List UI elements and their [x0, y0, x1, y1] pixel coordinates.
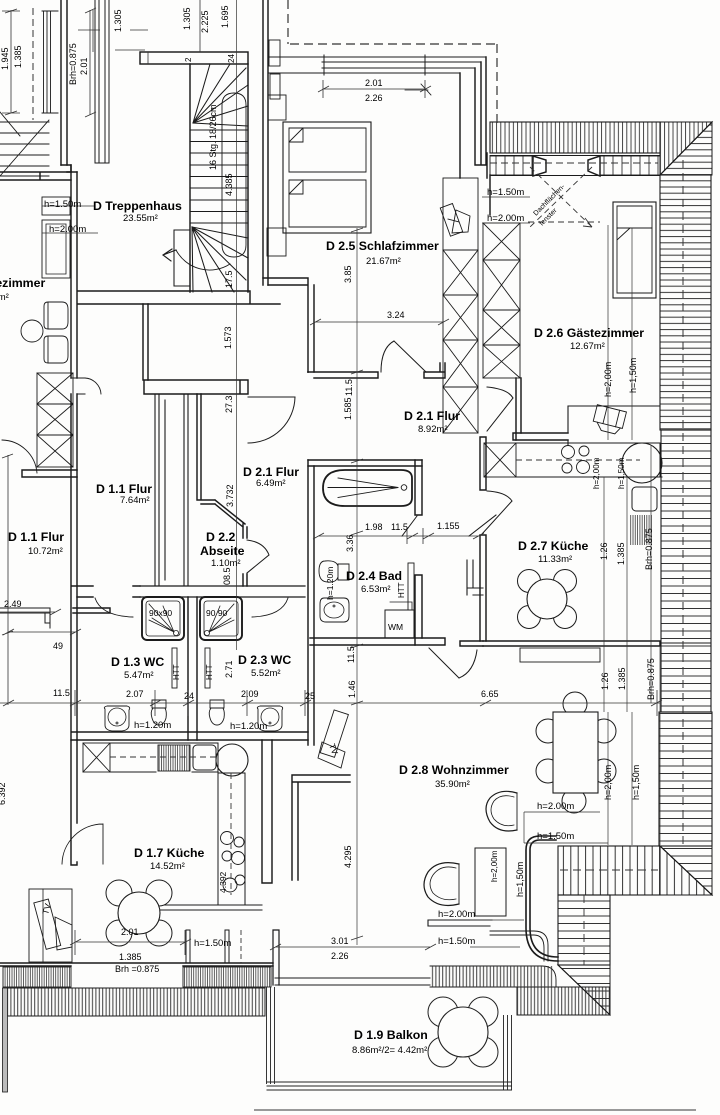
balcony door dim [270, 944, 436, 950]
stair cage walls [190, 64, 248, 292]
abseite D2.2 walls [197, 394, 247, 538]
radiator comb [630, 515, 652, 545]
balcony parapet hatch band bottom-left [3, 988, 265, 1016]
kitchen D2.7 left wall segments [480, 437, 486, 641]
window band far top-left [42, 11, 58, 113]
balcony door band (window) [275, 978, 430, 985]
roof valley line top-right [660, 122, 712, 175]
stair arrow [163, 249, 176, 261]
svg-text:Gästezimmer: Gästezimmer [0, 276, 45, 290]
svg-text:2.26: 2.26 [331, 951, 349, 961]
svg-text:HTT: HTT [172, 664, 181, 680]
beam below kitchen [520, 648, 600, 662]
svg-text:h=1,50m: h=1,50m [631, 765, 641, 800]
svg-text:4.295: 4.295 [343, 845, 353, 868]
svg-text:2.225: 2.225 [200, 10, 210, 33]
WC D1.3 sink [104, 706, 129, 731]
svg-text:90 90: 90 90 [206, 608, 228, 618]
svg-text:h=1.50m: h=1.50m [44, 199, 81, 210]
svg-text:h=2.00m: h=2.00m [438, 909, 475, 920]
roof band corner top-right (rung wedge) [660, 122, 712, 175]
misc ticks top wall [115, 0, 200, 64]
svg-text:h=2,00m: h=2,00m [603, 362, 613, 397]
svg-text:3.24: 3.24 [387, 310, 405, 320]
schlafzimmer left wall pair [263, 0, 268, 285]
wohnzimmer roof band horizontal part [558, 846, 660, 895]
bath bottom wall [310, 638, 445, 645]
door kueche D1.7 (arc) [62, 824, 103, 864]
window sill tick band below wohnzimmer [430, 966, 556, 987]
svg-text:h=2,00m: h=2,00m [490, 850, 499, 882]
window sill tick band kitchen D1.7 right [183, 967, 271, 987]
dach trapezoid marks [533, 156, 546, 176]
bath toilet [319, 561, 349, 582]
comb rack [158, 745, 190, 771]
svg-text:10.72m²: 10.72m² [28, 546, 63, 557]
balkon top hatch band right [517, 987, 610, 1015]
svg-text:h=1,50m: h=1,50m [617, 457, 626, 489]
wall between showers/WCs [188, 597, 197, 740]
svg-text:5.52m²: 5.52m² [251, 668, 281, 679]
svg-text:6.65: 6.65 [481, 689, 499, 699]
svg-text:3.36: 3.36 [345, 534, 355, 552]
svg-text:1.585: 1.585 [343, 397, 353, 420]
svg-text:17.5: 17.5 [224, 270, 234, 288]
svg-text:24: 24 [227, 54, 236, 63]
balcony table + chairs [428, 997, 498, 1067]
svg-text:1.305: 1.305 [182, 7, 192, 30]
svg-text:WM: WM [388, 622, 403, 632]
svg-text:12.34m²: 12.34m² [0, 292, 9, 303]
left edge dim chain [2, 9, 20, 115]
square sink [193, 745, 216, 770]
kitchen D1.7 bottom wall [155, 905, 262, 910]
svg-text:h=1,50m: h=1,50m [515, 862, 525, 897]
svg-text:D 1.9 Balkon: D 1.9 Balkon [354, 1028, 428, 1042]
stair landing rect [174, 230, 190, 286]
top wall band of treppenhaus [140, 52, 248, 64]
big dim chain y703 [0, 702, 660, 704]
gaestezimmer bottom wall [513, 433, 568, 440]
svg-text:27.3: 27.3 [224, 395, 234, 413]
90x90 shower labels [149, 608, 403, 632]
WC D2.3 toilet [209, 700, 224, 725]
HTT radiators between WCs [172, 648, 177, 688]
svg-text:11.5: 11.5 [344, 379, 354, 396]
curved wall balcony corner (thick) [526, 836, 558, 961]
area labels [28, 213, 605, 1056]
svg-text:08.5: 08.5 [222, 567, 232, 585]
kitchen D2.7 bottom wall [483, 641, 660, 646]
svg-text:1.385: 1.385 [119, 952, 142, 962]
gaestezimmer left wall pair lower [516, 378, 521, 440]
svg-text:4.392: 4.392 [218, 871, 228, 893]
svg-text:8.86m²/2= 4.42m²: 8.86m²/2= 4.42m² [352, 1045, 427, 1056]
svg-text:49: 49 [53, 641, 63, 651]
vertical ref line x236 [236, 0, 238, 650]
door treppenhaus (small arc) [85, 378, 101, 394]
curved h-line inner [490, 931, 548, 961]
schlafzimmer right wall corner (nested L) [460, 57, 486, 178]
kitchen window dim [70, 930, 191, 955]
balcony railing right [504, 1015, 512, 1090]
tick 2.26 dim end [405, 84, 431, 95]
door gaestezimmer (pointed) [487, 387, 513, 431]
bathtub [323, 470, 412, 506]
hob circles vertical [221, 832, 234, 845]
svg-text:1.573: 1.573 [223, 326, 233, 349]
wall above WC row [140, 586, 305, 597]
window dim 2.01/2.26 schlafzimmer [318, 80, 431, 98]
treppenhaus bottom wall band [78, 291, 280, 304]
door left room (arc) [2, 440, 37, 473]
svg-text:D 2.1 Flur: D 2.1 Flur [404, 409, 460, 423]
svg-text:h=1.20m: h=1.20m [230, 721, 267, 732]
svg-text:1.305: 1.305 [113, 9, 123, 32]
treppenhaus / flur left wall pair [71, 165, 77, 740]
corner round sink [216, 744, 248, 776]
svg-text:D 2.5 Schlafzimmer: D 2.5 Schlafzimmer [326, 239, 439, 253]
WC D2.3 sink [257, 706, 282, 731]
svg-text:1.385: 1.385 [616, 542, 626, 565]
wall single line to right band [660, 642, 711, 644]
h lines kitchen D2.7 down [604, 445, 651, 712]
window bay kitchen D1.7 [186, 930, 229, 963]
svg-text:h=2.00m: h=2.00m [487, 213, 524, 224]
svg-text:Brh =0.875: Brh =0.875 [115, 964, 159, 974]
svg-text:1.98: 1.98 [365, 522, 383, 532]
balcony railing bottom [267, 1082, 513, 1090]
kitchen D2.7 table + chairs [518, 570, 577, 629]
svg-text:2.49: 2.49 [4, 599, 22, 609]
sideboard rect [475, 848, 506, 916]
sub band below top roof band [490, 156, 660, 176]
svg-text:2.09: 2.09 [241, 689, 259, 699]
svg-text:14.52m²: 14.52m² [150, 861, 185, 872]
svg-text:h=1.50m: h=1.50m [487, 187, 524, 198]
kitchen D1.7 right duct walls [262, 740, 272, 883]
kitchen niche outline [568, 406, 660, 445]
balcony door jambs [273, 930, 279, 985]
svg-text:6.53m²: 6.53m² [361, 584, 391, 595]
grey pillar far bottom-left [3, 988, 8, 1092]
svg-text:4.385: 4.385 [224, 173, 234, 196]
nightstand 1 [268, 95, 286, 120]
svg-text:6.49m²: 6.49m² [256, 478, 286, 489]
svg-text:D 1.7 Küche: D 1.7 Küche [134, 846, 205, 860]
balcony railing left [267, 987, 275, 1084]
vertical ref line x357 [356, 228, 358, 945]
WC bottom wall [72, 732, 308, 740]
left area wall (top) [0, 172, 71, 180]
svg-text:D 2.3 WC: D 2.3 WC [238, 653, 291, 667]
bath D2.4 top wall [308, 460, 422, 466]
washing machine [385, 610, 414, 638]
balkon roof corner mitre bottom [558, 965, 610, 1015]
left edge walls bottom area [0, 608, 50, 628]
svg-text:HTT: HTT [397, 582, 406, 598]
kitchen D1.7 counter X-box [83, 743, 110, 772]
svg-text:D 1.1 Flur: D 1.1 Flur [96, 482, 152, 496]
svg-text:24: 24 [184, 691, 194, 701]
svg-text:D 2.1 Flur: D 2.1 Flur [243, 465, 299, 479]
svg-text:h=1.20m: h=1.20m [134, 720, 171, 731]
roof corner mitre right of wohnzimmer band [660, 846, 712, 895]
wall niche rects [269, 40, 280, 66]
svg-text:1.385: 1.385 [617, 667, 627, 690]
wall stub right of flur D2.1 [467, 560, 483, 595]
svg-text:h=1.50m: h=1.50m [194, 938, 231, 949]
kitchen D2.7 counter X-box [484, 443, 516, 477]
dim line bath 1.98/11.5/1.155 [313, 528, 484, 544]
door niche treppenhaus left [71, 378, 85, 394]
stair walk arc lower [176, 250, 230, 270]
bottom edge line of sheet [255, 1109, 695, 1111]
svg-text:h=2,00m: h=2,00m [592, 457, 601, 489]
svg-text:2.07: 2.07 [126, 689, 144, 699]
svg-text:h=2,00m: h=2,00m [603, 765, 613, 800]
svg-text:D 2.4 Bad: D 2.4 Bad [346, 569, 402, 583]
wohnzimmer roof band vertical part (rungs) [558, 895, 610, 965]
svg-text:Brh=0.875: Brh=0.875 [644, 528, 654, 570]
svg-text:8.92m²: 8.92m² [418, 424, 448, 435]
svg-text:2.01: 2.01 [79, 57, 89, 75]
svg-text:h=1,50m: h=1,50m [628, 358, 638, 393]
svg-text:1.945: 1.945 [0, 47, 10, 70]
svg-text:HTT: HTT [205, 664, 214, 680]
svg-text:11.5: 11.5 [346, 646, 356, 663]
bed frame [283, 122, 371, 233]
svg-text:D Treppenhaus: D Treppenhaus [93, 199, 182, 213]
svg-text:D 1.1 Flur: D 1.1 Flur [8, 530, 64, 544]
dim 49 left [2, 454, 81, 705]
wohnzimmer top wall [460, 641, 483, 646]
counter band [110, 743, 218, 772]
wall below roof band left (x 487) [487, 153, 490, 215]
dim 2.49 left [0, 609, 61, 615]
wall corner to treppenhaus left [61, 165, 77, 172]
wardrobe column C (left room) [37, 373, 73, 467]
h lines wohnzimmer [608, 646, 660, 845]
stair treads [190, 130, 248, 223]
svg-text:1.10m²: 1.10m² [211, 558, 241, 569]
mattress 2 [289, 180, 366, 227]
svg-text:2.01: 2.01 [121, 927, 139, 937]
counter centerlines [516, 459, 640, 461]
left room h lines [42, 206, 98, 233]
svg-text:5.47m²: 5.47m² [124, 670, 154, 681]
WC D1.3 toilet [151, 700, 166, 725]
wall pair top middle (stair lobby) [95, 0, 109, 163]
svg-text:Brh=0.875: Brh=0.875 [646, 658, 656, 700]
svg-text:D 2.7 Küche: D 2.7 Küche [518, 539, 589, 553]
svg-text:7.64m²: 7.64m² [120, 495, 150, 506]
svg-text:1.26: 1.26 [599, 542, 609, 560]
partially cut left room label [0, 276, 45, 290]
schlafzimmer / treppenhaus corner wall [263, 278, 314, 372]
oven below [632, 487, 657, 511]
roof band top (Gaestezimmer) [490, 122, 660, 153]
schlafzimmer bottom wall with door opening [308, 372, 378, 378]
bath D2.4 left wall / corridor wall [308, 372, 314, 745]
svg-text:h=2.00m: h=2.00m [49, 224, 86, 235]
left room wardrobe rects [42, 197, 70, 215]
svg-text:2.71: 2.71 [224, 660, 234, 678]
wardrobe column A (right of schlafzimmer) [443, 178, 478, 433]
svg-text:2: 2 [184, 57, 193, 62]
ticks on x357 [351, 228, 363, 940]
svg-text:21.67m²: 21.67m² [366, 256, 401, 267]
TV sideboard left [29, 889, 72, 962]
door abseite D2.2 (pointed) [247, 540, 269, 573]
nightstand 2 [267, 228, 286, 256]
svg-text:23.55m²: 23.55m² [123, 213, 158, 224]
dim 3.24 schlafzimmer [310, 312, 449, 332]
svg-text:12.67m²: 12.67m² [570, 341, 605, 352]
svg-text:1.26: 1.26 [600, 672, 610, 690]
kitchen D1.7 table + chairs [106, 880, 172, 946]
desk in wardrobe niche [440, 204, 470, 237]
svg-text:90x90: 90x90 [149, 608, 172, 618]
left room chairs + table [44, 302, 68, 329]
left stair flight top-left [0, 120, 49, 176]
angled sink in niche [592, 405, 627, 436]
svg-text:6.392: 6.392 [0, 782, 7, 805]
svg-text:D 1.3 WC: D 1.3 WC [111, 655, 164, 669]
roof band right C below (rungs to corner) [659, 712, 712, 846]
left wall lower (kitchen D1.7) [71, 740, 77, 865]
left area bottom wall [22, 470, 77, 477]
h= labels horizontal [44, 187, 574, 949]
svg-text:Brh=0.875: Brh=0.875 [68, 43, 78, 85]
bath right wall lower [415, 575, 422, 645]
mattress 1 [289, 128, 366, 172]
dining table [536, 692, 616, 813]
svg-text:h=2.00m: h=2.00m [537, 801, 574, 812]
door wohnzimmer (pointed, down) [429, 648, 477, 678]
svg-text:35.90m²: 35.90m² [435, 779, 470, 790]
svg-text:16 Stg. 18/26cm: 16 Stg. 18/26cm [208, 104, 218, 170]
vertical counter part [218, 772, 245, 905]
cooktop circles [562, 446, 575, 459]
stair fan upper [193, 64, 248, 126]
door kueche D2.7 (pointed) [482, 491, 512, 534]
door schlafzimmer (pointed) [381, 341, 426, 372]
armchair 2 (C shape) [424, 863, 459, 906]
door WC D2.3 (shallow arc) [252, 598, 288, 617]
armchair 1 (C shape) [486, 791, 517, 831]
svg-text:3.732: 3.732 [225, 484, 235, 507]
svg-text:h=1.20m: h=1.20m [325, 567, 335, 600]
svg-text:1.46: 1.46 [347, 680, 357, 698]
entrance door D2 (arc) [248, 397, 295, 443]
svg-text:3.01: 3.01 [331, 936, 349, 946]
svg-text:1.385: 1.385 [13, 45, 23, 68]
svg-text:D 2.2: D 2.2 [206, 530, 236, 544]
stair fan lower [192, 227, 248, 292]
svg-text:1.695: 1.695 [220, 5, 230, 28]
wall left outer pair [61, 0, 67, 165]
round sink kitchen D2.7 [622, 443, 662, 483]
svg-text:h=1.50m: h=1.50m [537, 831, 574, 842]
svg-text:2.26: 2.26 [365, 93, 383, 103]
svg-text:Abseite: Abseite [200, 544, 245, 558]
roof band corner top-right (vertical hatch wedge) [660, 122, 712, 175]
bath right wall upper [415, 460, 422, 515]
svg-text:2.01: 2.01 [365, 78, 383, 88]
room labels [8, 199, 644, 1042]
svg-text:3.85: 3.85 [343, 265, 353, 283]
svg-text:11.33m²: 11.33m² [538, 554, 572, 565]
h lines gaestezimmer [608, 225, 632, 440]
wall band above flur D1.1 [144, 380, 248, 394]
rotated h= and window dims right side [40, 183, 656, 916]
corridor walls D1.1 flur (narrow duct) [155, 394, 188, 586]
svg-text:11.5: 11.5 [53, 688, 70, 698]
top dims above stairs [78, 10, 148, 52]
door WC D1.3 (shallow arc) [95, 598, 133, 617]
svg-text:D 2.6 Gästezimmer: D 2.6 Gästezimmer [534, 326, 644, 340]
top-left dim 2.01 [85, 8, 96, 117]
outer wall bottom left [0, 963, 273, 966]
horizontal dim texts [4, 78, 499, 974]
stair rail stadium [222, 93, 246, 257]
roof band right A [660, 175, 711, 430]
svg-text:25: 25 [305, 691, 315, 701]
h lines gaestezimmer horizontal [482, 197, 530, 223]
roof band right B (wider rungs) [661, 430, 711, 712]
svg-text:h=1.50m: h=1.50m [438, 936, 475, 947]
TV sideboard right (corridor) [320, 710, 348, 757]
window sill tick band kitchen D1.7 left [3, 967, 71, 987]
dachfenster X mark [530, 167, 592, 227]
counter outline [516, 443, 662, 477]
schlafzimmer top window band [268, 55, 486, 75]
wall jog below treppenhaus [143, 304, 148, 380]
door bad D2.4 (pointed) [402, 515, 496, 536]
wardrobe column B (gaestezimmer) [483, 223, 520, 378]
bath radiator HTT [408, 563, 414, 610]
svg-text:1.155: 1.155 [437, 521, 460, 531]
svg-text:11.5: 11.5 [391, 522, 408, 532]
bath sink [320, 598, 349, 622]
rotated dim texts [0, 5, 406, 893]
svg-text:D 2.8 Wohnzimmer: D 2.8 Wohnzimmer [399, 763, 509, 777]
